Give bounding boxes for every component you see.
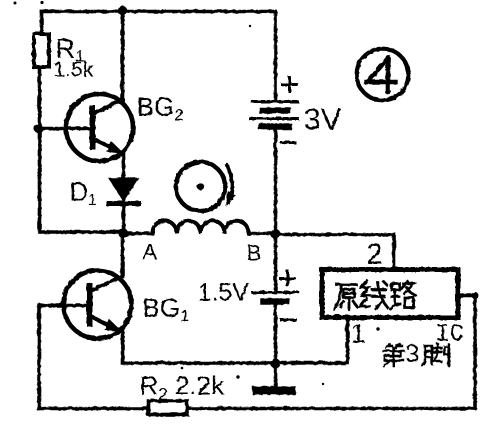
svg-text:1.5V: 1.5V [197,278,249,306]
resistor R2 [148,401,187,415]
label 线 [360,280,387,308]
wire collector BG1 to node A [120,233,124,276]
ground [256,386,291,395]
label 第 [383,344,403,366]
svg-text:1.5k: 1.5k [53,58,93,81]
node junction base BG2 [33,123,42,132]
label 路 [390,281,415,309]
svg-text:R2 2.2k: R2 2.2k [139,370,225,403]
wire 1.5V battery to ground [273,304,277,386]
wire top rail [41,9,275,13]
diode D1 [109,178,137,200]
battery 1.5V [252,291,297,294]
svg-text:BG2: BG2 [136,91,183,124]
svg-text:A: A [142,239,157,264]
figure number circle 4 [356,48,408,100]
wire top right vertical [273,11,277,100]
node junction ground [270,358,280,368]
wire node A to coil [123,231,152,235]
svg-text:3: 3 [405,340,419,368]
svg-text:BG1: BG1 [142,292,189,325]
wire coil to node B [248,231,275,235]
svg-text:2: 2 [366,238,382,270]
motor M symbol [176,162,225,211]
wire box pin 1 [345,318,349,362]
speckle marks [14,2,17,5]
wire BG2 base [38,126,90,130]
wire collector BG2 up [120,10,124,100]
wire left vertical to R1 [39,11,43,33]
transistor Q BG1 [63,270,131,338]
wire node B to box pin 2 [275,234,394,268]
resistor R1 [34,34,49,67]
wire emitter BG2 down [121,151,125,178]
label 脚 [422,344,449,366]
node A [118,228,128,238]
wire node B down to 1.5V battery [273,238,277,292]
inductor L coil [152,220,248,233]
svg-text:D1: D1 [69,176,97,209]
wire battery to node B [273,129,277,229]
svg-text:1: 1 [350,318,365,348]
node B [270,229,280,239]
svg-text:B: B [246,240,261,265]
node junction top [117,5,126,14]
wire R1 bottom to node A corner [39,67,122,232]
transistor Q BG2 [66,94,133,161]
svg-text:3V: 3V [303,101,341,136]
box unit 原线路 [322,269,458,317]
motor rotation arrow [227,165,232,201]
wire emitter BG1 rail [122,331,347,363]
label 原 [334,284,357,309]
wire BG1 base [38,305,87,408]
battery 3V [252,100,297,103]
wire box right to bottom rail [458,295,475,408]
wire bottom rail [38,406,474,410]
